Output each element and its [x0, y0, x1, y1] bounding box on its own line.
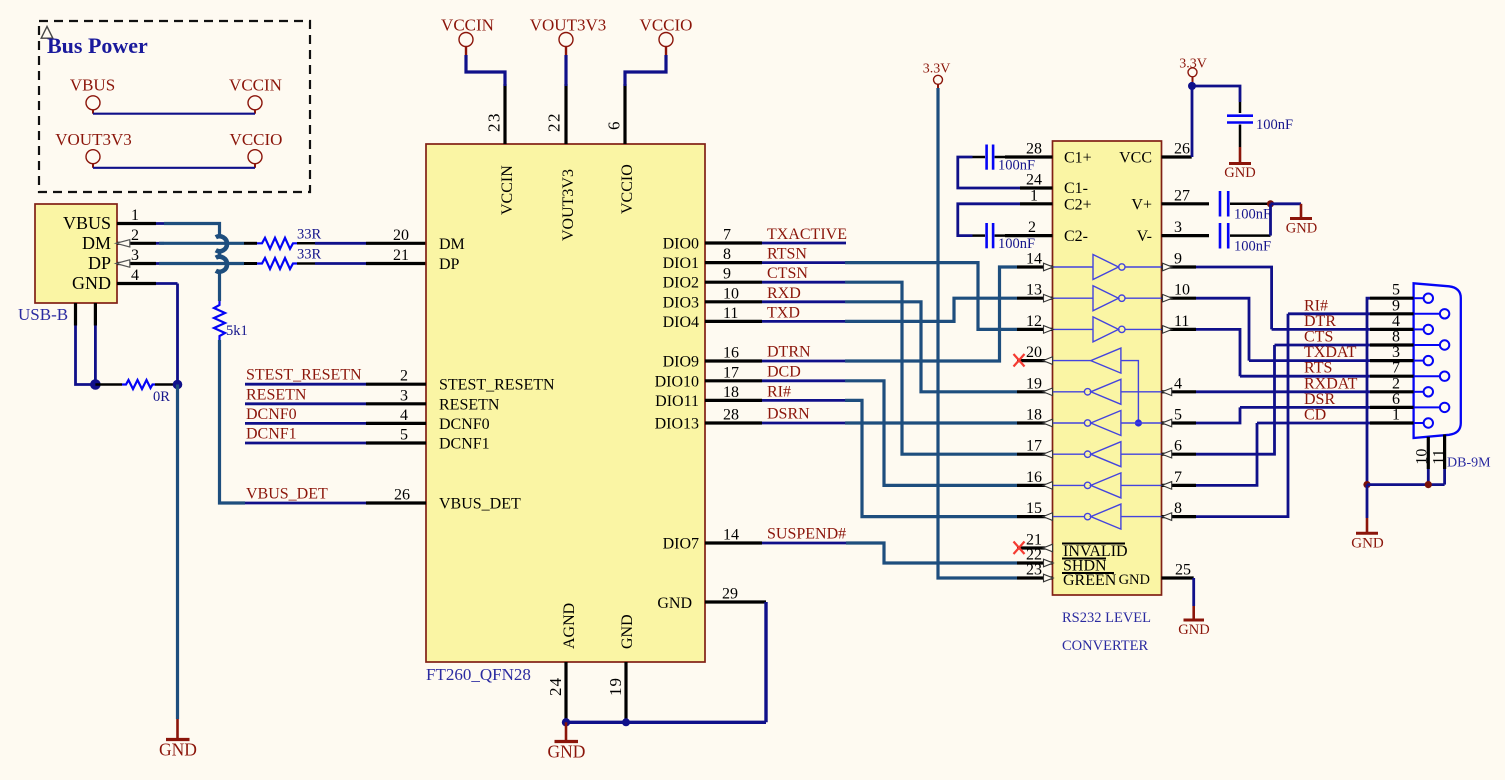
ground symbol C5 — [1224, 147, 1255, 181]
svg-text:DIO3: DIO3 — [663, 294, 699, 311]
wire DP segment — [159, 262, 244, 265]
svg-text:VOUT3V3: VOUT3V3 — [560, 169, 577, 241]
junction 3.3V vcc — [1188, 82, 1196, 90]
svg-text:10: 10 — [1414, 449, 1431, 465]
db9 pin 3 — [1370, 344, 1433, 365]
svg-text:DCNF1: DCNF1 — [439, 436, 490, 453]
net RESETN — [245, 386, 426, 404]
pin 14 — [1017, 251, 1053, 271]
pin 24 C1- — [1020, 172, 1053, 189]
svg-text:3: 3 — [400, 387, 408, 404]
svg-text:8: 8 — [723, 246, 731, 263]
svg-text:2: 2 — [1392, 375, 1400, 392]
svg-text:VCCIN: VCCIN — [229, 76, 282, 95]
svg-text:5: 5 — [400, 427, 408, 444]
svg-text:18: 18 — [723, 384, 739, 401]
junction shield — [90, 379, 101, 390]
pin 21 INVALID no-connect — [1014, 532, 1053, 555]
svg-text:DIO4: DIO4 — [663, 314, 699, 331]
svg-text:7: 7 — [1174, 469, 1182, 486]
svg-text:RTS: RTS — [1304, 360, 1332, 377]
db9 pin 7 — [1370, 360, 1449, 381]
svg-text:TXACTIVE: TXACTIVE — [767, 226, 847, 243]
svg-text:GND: GND — [1224, 165, 1255, 181]
net DSR — [1240, 391, 1370, 408]
svg-text:VBUS: VBUS — [70, 76, 115, 95]
svg-text:RI#: RI# — [767, 383, 791, 400]
svg-text:VCCIO: VCCIO — [640, 16, 693, 35]
svg-text:CONVERTER: CONVERTER — [1062, 638, 1148, 654]
wire VOUT3V3 to pin22 — [564, 55, 567, 86]
power port 3.3V left — [923, 62, 951, 89]
svg-text:VCC: VCC — [1119, 150, 1152, 167]
net RI# — [1288, 297, 1370, 314]
svg-text:Bus Power: Bus Power — [47, 33, 148, 58]
svg-text:GND: GND — [619, 614, 636, 649]
svg-text:STEST_RESETN: STEST_RESETN — [439, 377, 555, 394]
svg-text:CD: CD — [1304, 407, 1326, 424]
svg-text:6: 6 — [1392, 391, 1400, 408]
svg-text:DB-9M: DB-9M — [1447, 456, 1491, 471]
capacitor C1 100nF — [973, 145, 1036, 174]
power port VOUT3V3 — [55, 130, 132, 168]
wire 3.3V rail to U2 pin23 GREEN — [938, 88, 1017, 578]
svg-text:DIO2: DIO2 — [663, 275, 699, 292]
pin 22 VOUT3V3 stub — [564, 84, 567, 144]
svg-text:V+: V+ — [1131, 196, 1152, 213]
wire U2 pin7 to CD — [1196, 423, 1257, 485]
db9 pin 10 shield — [1414, 437, 1431, 485]
svg-text:33R: 33R — [297, 227, 322, 243]
pin name GREEN with overline — [1062, 572, 1117, 589]
net CTSN DIO2 pin9 to U2 pin17 — [705, 265, 1017, 454]
pin 16 — [1017, 469, 1053, 489]
junction trunk — [1363, 481, 1370, 488]
svg-text:GND: GND — [548, 742, 586, 762]
pin 2 DM — [82, 227, 164, 253]
wire db9 gnd trunk — [1367, 298, 1370, 484]
pin 4 — [1162, 375, 1197, 395]
svg-text:6: 6 — [1174, 438, 1182, 455]
resistor R_DP 33R — [257, 258, 297, 269]
net DCD DIO10 pin17 to U2 pin16 — [705, 363, 1017, 485]
junction gnd — [173, 380, 183, 390]
svg-text:TXDAT: TXDAT — [1304, 344, 1357, 361]
svg-text:VBUS: VBUS — [63, 213, 111, 233]
svg-text:C2+: C2+ — [1064, 196, 1092, 213]
wire C2+ loop — [958, 204, 1020, 236]
svg-text:21: 21 — [393, 247, 409, 264]
svg-text:RTSN: RTSN — [767, 246, 807, 263]
svg-text:RXDAT: RXDAT — [1304, 375, 1358, 392]
svg-text:CTS: CTS — [1304, 329, 1333, 346]
pin 26 VCC — [1162, 141, 1192, 158]
pin 23 VCCIN stub — [503, 84, 506, 144]
wire trunk down — [1366, 485, 1369, 518]
svg-text:GND: GND — [657, 595, 692, 612]
connector USB-B — [35, 204, 117, 303]
wire VBUS to 5k1 — [218, 270, 221, 302]
svg-text:25: 25 — [1175, 562, 1191, 579]
svg-text:GND: GND — [72, 273, 111, 293]
svg-text:2: 2 — [131, 227, 139, 244]
pin 5 — [1162, 407, 1197, 427]
connector J2 DB-9M body — [1414, 283, 1461, 438]
svg-text:13: 13 — [1026, 282, 1042, 299]
svg-text:DIO1: DIO1 — [663, 255, 699, 272]
pin 7 — [1162, 469, 1197, 489]
ground symbol V+ — [1286, 204, 1317, 237]
svg-text:USB-B: USB-B — [18, 305, 68, 324]
svg-text:VCCIO: VCCIO — [619, 164, 636, 214]
receiver row 20 with feedback — [1053, 348, 1143, 427]
net TXD DIO4 pin11 to U2 pin13 — [705, 298, 1017, 322]
net VBUS_DET — [245, 486, 426, 504]
db9 pin 1 — [1370, 407, 1433, 428]
wire DM segment — [159, 242, 244, 245]
svg-text:5: 5 — [1392, 282, 1400, 299]
ground symbol usb — [159, 719, 197, 760]
IC U2 RS232 level converter — [1053, 141, 1162, 595]
capacitor C5 100nF — [1227, 102, 1293, 147]
pin 15 — [1017, 500, 1053, 520]
svg-text:24: 24 — [546, 677, 565, 696]
svg-text:11: 11 — [1431, 449, 1448, 464]
pin 6 — [1162, 438, 1197, 458]
svg-text:14: 14 — [1026, 251, 1042, 268]
svg-text:4: 4 — [1174, 375, 1182, 392]
svg-text:DM: DM — [439, 236, 465, 253]
svg-text:10: 10 — [1174, 282, 1190, 299]
junction gnd19 — [622, 718, 630, 726]
svg-text:SUSPEND#: SUSPEND# — [767, 526, 846, 543]
wire 5k1 to VBUS_DET — [220, 340, 246, 503]
junction agnd — [562, 718, 570, 726]
svg-text:0R: 0R — [153, 389, 170, 405]
svg-text:GND: GND — [1119, 572, 1150, 588]
pin 12 — [1017, 313, 1053, 333]
db9 pin 6 — [1370, 391, 1449, 412]
svg-text:2: 2 — [400, 368, 408, 385]
svg-text:18: 18 — [1026, 407, 1042, 424]
svg-text:100nF: 100nF — [1234, 207, 1271, 223]
resistor 5k1 — [214, 301, 225, 340]
svg-text:C2-: C2- — [1064, 228, 1088, 245]
pin 24 AGND stub — [564, 662, 567, 722]
dashed box Bus Power — [39, 21, 310, 192]
svg-text:DIO0: DIO0 — [663, 236, 699, 253]
receiver row 17 — [1053, 442, 1162, 467]
svg-text:DIO9: DIO9 — [663, 354, 699, 371]
svg-text:17: 17 — [1026, 438, 1042, 455]
pin 4 GND — [72, 267, 156, 293]
svg-text:DIO10: DIO10 — [655, 373, 699, 390]
pin 10 — [1162, 282, 1197, 302]
capacitor C2 100nF — [973, 223, 1036, 252]
svg-text:10: 10 — [723, 285, 739, 302]
wire shield bus — [1367, 483, 1445, 486]
pin 29 GND stub — [705, 600, 766, 603]
net CTS — [1275, 329, 1371, 346]
pin 22 SHDN — [1017, 547, 1053, 567]
svg-text:RI#: RI# — [1304, 297, 1328, 314]
power port 3.3V right — [1179, 57, 1207, 83]
receiver row 18 — [1053, 411, 1162, 436]
svg-text:22: 22 — [545, 112, 564, 132]
pin 3 DP — [88, 247, 164, 273]
svg-text:9: 9 — [723, 266, 731, 283]
svg-text:FT260_QFN28: FT260_QFN28 — [426, 665, 531, 684]
capacitor C6 100nF V+ — [1220, 191, 1271, 223]
svg-text:100nF: 100nF — [1234, 239, 1271, 255]
svg-text:9: 9 — [1174, 251, 1182, 268]
svg-text:GND: GND — [1178, 622, 1209, 638]
net RXDAT straight — [1196, 375, 1370, 392]
svg-text:28: 28 — [1026, 141, 1042, 158]
capacitor C7 100nF V- — [1220, 223, 1271, 255]
svg-text:TXD: TXD — [767, 304, 800, 321]
power port VCCIO — [230, 130, 283, 168]
svg-text:23: 23 — [1026, 562, 1042, 579]
svg-text:3: 3 — [131, 247, 139, 264]
svg-text:33R: 33R — [297, 247, 322, 263]
power port VCCIN top — [441, 16, 494, 57]
power port VCCIN — [229, 76, 282, 114]
net DCNF1 — [245, 426, 426, 444]
svg-text:9: 9 — [1392, 297, 1400, 314]
db9 pin 8 — [1370, 329, 1449, 350]
svg-text:GND: GND — [1351, 536, 1384, 552]
usb shield pin right — [94, 303, 97, 326]
svg-text:5: 5 — [1174, 407, 1182, 424]
svg-text:DSR: DSR — [1304, 391, 1335, 408]
wire 3.3V to C5 — [1192, 86, 1240, 102]
wire DM to chip — [297, 242, 315, 245]
wire DP to chip — [297, 262, 315, 265]
pin 13 — [1017, 282, 1053, 302]
svg-text:4: 4 — [1392, 313, 1400, 330]
svg-text:20: 20 — [393, 227, 409, 244]
svg-text:DCD: DCD — [767, 363, 801, 380]
svg-text:14: 14 — [723, 527, 739, 544]
svg-text:RS232 LEVEL: RS232 LEVEL — [1062, 610, 1151, 626]
db9 pin 4 — [1370, 313, 1433, 334]
power port VOUT3V3 top — [530, 16, 607, 57]
net SUSPEND# DIO7 pin14 to U2 pin22 — [705, 526, 1017, 564]
pin 27 V+ — [1162, 187, 1210, 204]
receiver row 19 — [1053, 379, 1162, 404]
svg-text:RESETN: RESETN — [439, 396, 500, 413]
net STEST_RESETN — [245, 367, 426, 385]
svg-text:19: 19 — [1026, 375, 1042, 392]
svg-text:100nF: 100nF — [1256, 117, 1293, 133]
net DSRN DIO13 pin28 to U2 pin18 — [705, 406, 1017, 424]
svg-text:26: 26 — [1174, 141, 1190, 158]
pin 20 no-connect — [1014, 344, 1053, 366]
net RXD DIO3 pin10 to U2 pin19 — [705, 285, 1017, 392]
svg-text:VOUT3V3: VOUT3V3 — [530, 16, 607, 35]
pin name INVALID with overline — [1062, 543, 1128, 560]
wire U2 pin5 to DSR — [1196, 407, 1240, 423]
db9 pin 9 — [1370, 297, 1449, 318]
svg-text:C1-: C1- — [1064, 180, 1088, 197]
svg-text:GND: GND — [159, 740, 197, 760]
svg-text:28: 28 — [723, 407, 739, 424]
pin 28 C1+ — [1005, 141, 1053, 158]
wire U2 pin10 to TXDAT — [1196, 298, 1249, 360]
svg-text:100nF: 100nF — [998, 158, 1035, 174]
pin 2 C2- — [1005, 219, 1053, 236]
driver buffer row3 — [1053, 317, 1162, 342]
svg-text:DIO11: DIO11 — [655, 393, 699, 410]
wire V+ junction to gnd — [1271, 202, 1302, 205]
pin 1 C2+ — [1020, 187, 1053, 204]
net TXACTIVE DIO0 pin7 — [705, 226, 847, 244]
wire 3.3V to VCC pin26 — [1191, 82, 1194, 157]
svg-text:15: 15 — [1026, 500, 1042, 517]
IC U1 FT260_QFN28 — [426, 144, 705, 662]
net CD — [1257, 407, 1370, 424]
svg-text:8: 8 — [1392, 329, 1400, 346]
svg-text:GREEN: GREEN — [1063, 572, 1117, 589]
svg-text:19: 19 — [606, 677, 625, 696]
svg-text:24: 24 — [1026, 172, 1042, 189]
wire to 0R — [95, 383, 122, 386]
svg-text:DM: DM — [82, 233, 111, 253]
wire pin25 to gnd — [1192, 578, 1195, 606]
resistor R_DM 33R — [257, 238, 297, 249]
pin 18 — [1017, 407, 1053, 427]
svg-text:AGND: AGND — [561, 603, 578, 649]
svg-text:VOUT3V3: VOUT3V3 — [55, 130, 132, 149]
svg-text:11: 11 — [1174, 313, 1189, 330]
wire VBUS to VCCIN — [93, 113, 255, 115]
pin 23 GREEN — [1017, 562, 1053, 582]
svg-text:VCCIO: VCCIO — [230, 130, 283, 149]
svg-text:11: 11 — [723, 305, 738, 322]
svg-text:12: 12 — [1026, 313, 1042, 330]
svg-text:29: 29 — [722, 586, 738, 603]
svg-text:16: 16 — [1026, 469, 1042, 486]
junction V+ — [1267, 200, 1274, 207]
wire V- to junction — [1269, 204, 1272, 236]
svg-text:DIO13: DIO13 — [655, 416, 699, 433]
ground symbol U2 — [1178, 606, 1209, 638]
net TXDAT — [1249, 344, 1370, 361]
pin 3 V- — [1162, 219, 1210, 236]
wire hop over DP — [216, 257, 227, 272]
svg-text:23: 23 — [485, 112, 504, 132]
pin 1 VBUS — [63, 207, 164, 233]
svg-text:VBUS_DET: VBUS_DET — [246, 486, 328, 503]
wire gnd bus vertical — [764, 602, 767, 722]
svg-text:3: 3 — [1174, 219, 1182, 236]
ground symbol ft260 — [548, 722, 586, 761]
wire U2 pin6 to CTS — [1196, 345, 1275, 454]
wire U2 pin8 to RI# — [1196, 314, 1288, 517]
svg-text:DP: DP — [439, 256, 460, 273]
resistor 0R — [122, 380, 155, 389]
svg-text:V-: V- — [1137, 228, 1152, 245]
wire usb gnd pin4 — [156, 282, 178, 285]
svg-text:DP: DP — [88, 253, 111, 273]
svg-text:STEST_RESETN: STEST_RESETN — [246, 367, 362, 384]
svg-text:7: 7 — [1392, 360, 1400, 377]
wire gnd bus horizontal — [566, 721, 766, 724]
svg-text:DIO7: DIO7 — [663, 536, 699, 553]
net RTSN DIO1 pin8 to U2 pin12 — [705, 246, 1017, 330]
svg-text:1: 1 — [131, 207, 139, 224]
wire shield left to 0R — [76, 326, 96, 385]
wire C1 loop — [958, 157, 1020, 188]
wire VBUS net — [164, 224, 220, 238]
pin 9 — [1162, 251, 1197, 271]
svg-text:DTR: DTR — [1304, 313, 1336, 330]
net RTS — [1240, 360, 1370, 377]
pin 8 — [1162, 500, 1197, 520]
net DTRN DIO9 pin16 to U2 pin14 — [705, 267, 1017, 362]
wire VCCIN to pin23 — [466, 55, 505, 86]
svg-text:DSRN: DSRN — [767, 406, 810, 423]
wire gnd drop — [176, 284, 179, 385]
svg-text:VCCIN: VCCIN — [441, 16, 494, 35]
pin 19 GND stub — [624, 662, 627, 722]
pin 6 VCCIO stub — [623, 84, 626, 144]
svg-text:100nF: 100nF — [998, 236, 1035, 252]
db9 pin 11 shield — [1431, 435, 1448, 485]
receiver row 16 — [1053, 473, 1162, 498]
net DTR — [1272, 313, 1370, 330]
db9 pin 5 — [1370, 282, 1433, 303]
pin 19 — [1017, 375, 1053, 395]
svg-text:VBUS_DET: VBUS_DET — [439, 496, 521, 513]
svg-text:DTRN: DTRN — [767, 344, 811, 361]
wire VBUS mid — [218, 250, 221, 259]
svg-text:GND: GND — [1286, 221, 1317, 237]
wire hop over DM — [216, 236, 227, 251]
ground symbol db9 — [1351, 518, 1384, 552]
db9 pin 2 — [1370, 375, 1433, 396]
svg-text:C1+: C1+ — [1064, 150, 1092, 167]
svg-text:5k1: 5k1 — [226, 323, 248, 339]
svg-text:7: 7 — [723, 227, 731, 244]
svg-text:20: 20 — [1026, 344, 1042, 361]
svg-text:2: 2 — [1028, 219, 1036, 236]
wire VOUT3V3 to VCCIO — [93, 167, 255, 169]
svg-text:27: 27 — [1174, 187, 1190, 204]
svg-text:RESETN: RESETN — [246, 386, 307, 403]
power port VCCIO top — [640, 16, 693, 57]
svg-text:DCNF1: DCNF1 — [246, 426, 297, 443]
svg-text:DCNF0: DCNF0 — [439, 416, 490, 433]
pin 11 — [1162, 313, 1197, 333]
svg-text:17: 17 — [723, 364, 739, 381]
wire VCCIO to pin6 — [625, 55, 666, 86]
svg-text:DCNF0: DCNF0 — [246, 406, 297, 423]
receiver row 15 — [1053, 504, 1162, 529]
svg-text:RXD: RXD — [767, 285, 801, 302]
usb shield pin left — [74, 303, 77, 326]
net RI# DIO11 pin18 to U2 pin15 — [705, 383, 1017, 516]
junction shield — [1425, 481, 1432, 488]
sheet corner triangle — [41, 27, 53, 39]
svg-text:VCCIN: VCCIN — [499, 165, 516, 215]
wire shield right — [94, 326, 97, 385]
wire U2 pin9 to DTR — [1196, 267, 1272, 329]
pin 17 — [1017, 438, 1053, 458]
svg-text:8: 8 — [1174, 500, 1182, 517]
wire 0R to gnd line — [155, 383, 178, 386]
